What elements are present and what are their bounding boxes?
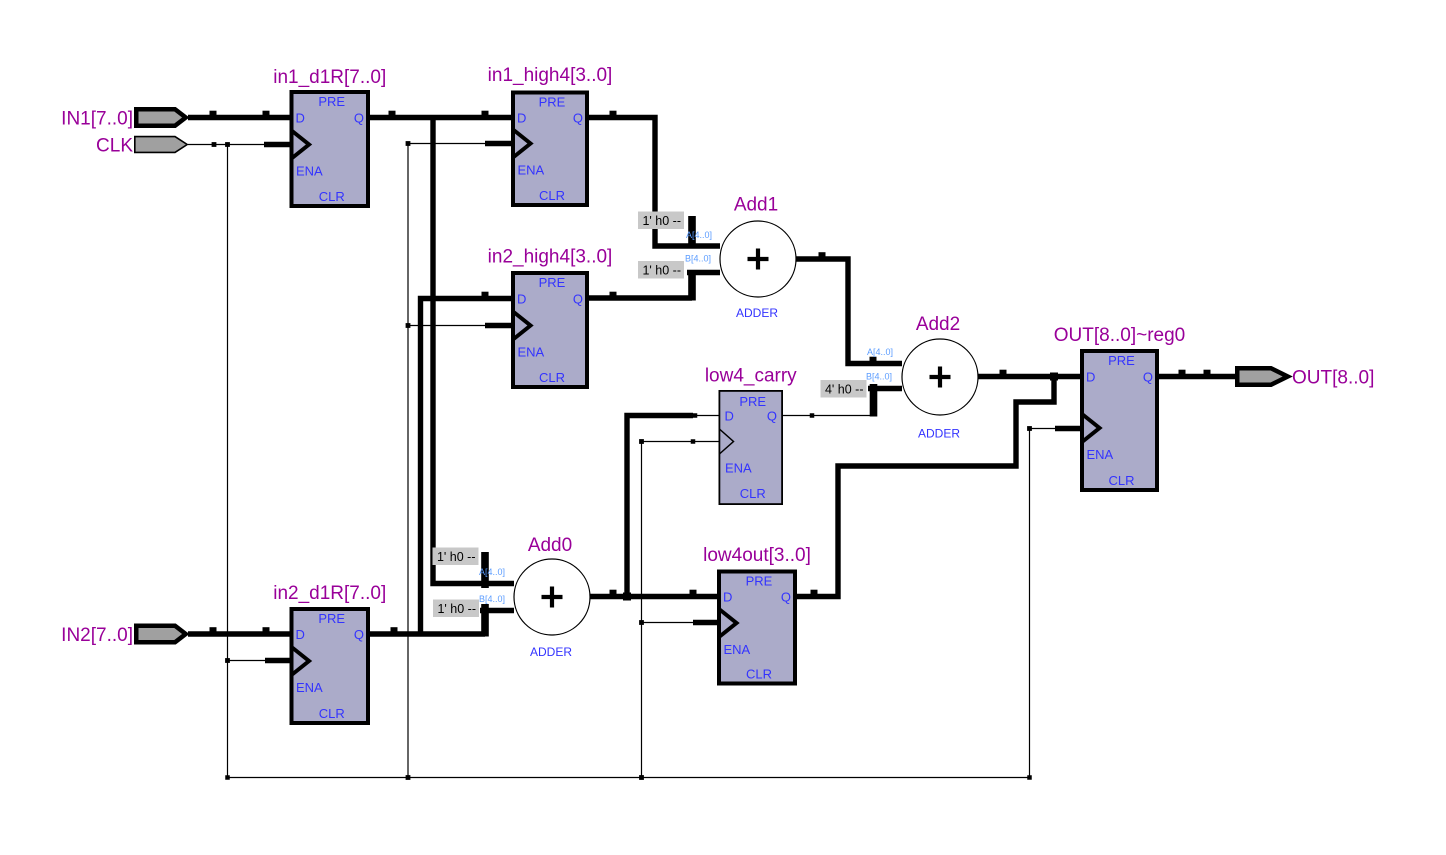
wire CLK branch in2_d1R <box>228 660 266 662</box>
svg-text:CLR: CLR <box>319 706 345 721</box>
svg-text:D: D <box>1086 370 1095 385</box>
svg-text:CLK: CLK <box>96 136 133 157</box>
svg-text:OUT[8..0]: OUT[8..0] <box>1292 368 1374 389</box>
junction low4_carry clk <box>691 439 696 444</box>
svg-text:in2_high4[3..0]: in2_high4[3..0] <box>488 247 613 268</box>
port label A4-0 <box>867 347 893 357</box>
svg-text:A[4..0]: A[4..0] <box>686 230 712 240</box>
bus tick <box>263 111 270 116</box>
wire low4_carry.Q carry wire <box>783 415 874 417</box>
junction rail right corner <box>1027 775 1032 780</box>
svg-text:ENA: ENA <box>724 642 751 657</box>
svg-text:Q: Q <box>354 111 364 126</box>
svg-text:Q: Q <box>781 590 791 605</box>
wire CLK branch in2_high4 <box>408 325 485 327</box>
svg-text:1' h0 --: 1' h0 -- <box>437 602 476 616</box>
svg-text:D: D <box>296 111 305 126</box>
wire CLK stub in2_high4 <box>485 323 511 328</box>
input pin IN2 <box>61 625 186 646</box>
wire CLK riser x407 <box>407 144 409 778</box>
svg-text:1' h0 --: 1' h0 -- <box>642 214 681 228</box>
wire IN2 bus to in2_d1R.D <box>188 631 290 636</box>
junction riser641 rail <box>639 775 644 780</box>
svg-text:ENA: ENA <box>518 345 545 360</box>
constant 1'h0 Add1.B <box>638 261 684 279</box>
wire CLK branch low4_carry <box>642 441 719 443</box>
wire CLK branch low4out <box>642 622 694 624</box>
wire Add1.B riser bar <box>688 270 696 301</box>
svg-text:D: D <box>723 590 732 605</box>
svg-text:CLR: CLR <box>539 370 565 385</box>
svg-text:Add1: Add1 <box>734 195 778 216</box>
svg-text:PRE: PRE <box>539 275 566 290</box>
wire Add1.A constant stub <box>688 216 696 247</box>
wire CLK stub OUTreg <box>1055 426 1080 431</box>
svg-text:D: D <box>725 409 734 424</box>
svg-text:PRE: PRE <box>739 394 766 409</box>
wire in2_high4.Q to Add1.B riser <box>589 273 720 299</box>
wire IN1 bus to in1_d1R.D <box>188 115 290 120</box>
bus tick <box>610 292 617 297</box>
constant 1'h0 Add0.B <box>433 600 479 618</box>
svg-text:A[4..0]: A[4..0] <box>867 347 893 357</box>
bus tick <box>870 357 877 362</box>
svg-text:PRE: PRE <box>1108 353 1135 368</box>
wire Add0.B riser bar <box>481 604 489 637</box>
input pin CLK <box>96 136 187 157</box>
svg-text:Q: Q <box>573 111 583 126</box>
junction riser641 low4out <box>639 620 644 625</box>
wire Add1 out to Add2.A <box>796 259 902 364</box>
wire CLK stub low4out <box>693 620 717 625</box>
svg-text:D: D <box>517 111 526 126</box>
wire low4_carry.D thin tap <box>693 415 719 417</box>
adder Add1 <box>720 195 796 321</box>
bus tick <box>389 111 396 116</box>
bus tick <box>610 590 617 595</box>
svg-text:in2_d1R[7..0]: in2_d1R[7..0] <box>273 583 386 604</box>
svg-text:IN1[7..0]: IN1[7..0] <box>61 109 133 130</box>
svg-text:ENA: ENA <box>296 164 323 179</box>
wire Add2.B riser bar <box>870 384 878 417</box>
svg-text:1' h0 --: 1' h0 -- <box>642 263 681 277</box>
wire CLK riser x641 <box>641 442 643 778</box>
wire Add0.A constant stub <box>481 552 489 588</box>
svg-text:ADDER: ADDER <box>918 427 960 441</box>
svg-text:Q: Q <box>354 627 364 642</box>
svg-text:CLR: CLR <box>539 188 565 203</box>
register low4_carry <box>705 366 797 505</box>
svg-text:CLR: CLR <box>319 189 345 204</box>
svg-text:ENA: ENA <box>296 680 323 695</box>
bus tick <box>482 292 489 297</box>
constant 1'h0 Add1.A <box>638 212 684 230</box>
svg-text:PRE: PRE <box>318 611 345 626</box>
junction rail left corner <box>225 775 230 780</box>
svg-text:PRE: PRE <box>746 574 773 589</box>
constant 4'h0 Add2.B <box>821 380 867 398</box>
wire CLK pin to in1_d1R clock <box>188 144 264 146</box>
wire low4out.Q merge path to OUTreg.D <box>797 377 1054 597</box>
junction carry wire <box>810 413 815 418</box>
svg-text:CLR: CLR <box>740 486 766 501</box>
junction riser407 rail <box>406 775 411 780</box>
register in1_d1R <box>273 67 386 206</box>
svg-text:in1_high4[3..0]: in1_high4[3..0] <box>488 65 613 86</box>
bus tick <box>391 627 398 632</box>
junction riser407 in2_high4 <box>406 323 411 328</box>
svg-text:low4_carry: low4_carry <box>705 366 797 387</box>
svg-text:Q: Q <box>767 409 777 424</box>
svg-text:B[4..0]: B[4..0] <box>685 254 711 264</box>
bus tick <box>1000 370 1007 375</box>
register OUT~reg0 <box>1054 325 1185 490</box>
wire CLK branch OUTreg <box>1030 428 1056 430</box>
junction CLK fanout b <box>225 142 230 147</box>
wire CLK branch in1_high4 <box>408 143 485 145</box>
adder Add0 <box>514 535 590 659</box>
svg-text:Q: Q <box>573 292 583 307</box>
port label B4-0 <box>479 594 505 604</box>
svg-text:Add2: Add2 <box>916 314 960 335</box>
junction Add0 out branch <box>623 593 631 601</box>
register in2_d1R <box>273 583 386 723</box>
svg-text:D: D <box>296 627 305 642</box>
svg-text:B[4..0]: B[4..0] <box>479 594 505 604</box>
port label A4-0 <box>479 567 505 577</box>
wire Add2.B const wire <box>868 386 902 391</box>
wire in1_d1R.Q to in1_high4.D <box>370 115 511 120</box>
svg-text:ENA: ENA <box>1087 447 1114 462</box>
svg-text:PRE: PRE <box>318 94 345 109</box>
svg-text:IN2[7..0]: IN2[7..0] <box>61 625 133 646</box>
port label A4-0 <box>686 230 712 240</box>
svg-text:OUT[8..0]~reg0: OUT[8..0]~reg0 <box>1054 325 1185 346</box>
bus tick <box>482 111 489 116</box>
bus tick <box>210 627 217 632</box>
junction CLK fanout a <box>212 142 217 147</box>
register in2_high4 <box>488 247 613 388</box>
bus tick <box>610 111 617 116</box>
svg-text:PRE: PRE <box>539 95 566 110</box>
wire in1_high4.Q to Add1.A <box>589 118 720 247</box>
bus tick <box>263 627 270 632</box>
svg-text:1' h0 --: 1' h0 -- <box>437 550 476 564</box>
bus tick <box>1179 370 1186 375</box>
bus tick <box>819 252 826 257</box>
wire Add0 out to low4out.D <box>590 594 717 599</box>
wire Add0.B riser <box>480 611 514 637</box>
wire OUTreg.Q to OUT pin <box>1159 374 1235 379</box>
bus tick <box>811 590 818 595</box>
register in1_high4 <box>488 65 613 205</box>
svg-text:ENA: ENA <box>518 163 545 178</box>
svg-text:ADDER: ADDER <box>736 306 778 320</box>
bus tick <box>210 111 217 116</box>
constant 1'h0 Add0.A <box>433 548 479 566</box>
output pin OUT <box>1237 368 1374 389</box>
svg-text:CLR: CLR <box>746 667 772 682</box>
wire in2 riser to in2_high4.D <box>421 299 512 635</box>
wire in2_d1R.Q bus <box>370 631 485 636</box>
wire CLK stub in1_d1R <box>264 142 290 147</box>
svg-text:Q: Q <box>1143 370 1153 385</box>
wire Add0 out branch to low4_carry.D <box>627 416 693 597</box>
junction low4_carry D tap <box>693 413 698 418</box>
svg-text:D: D <box>517 292 526 307</box>
svg-text:low4out[3..0]: low4out[3..0] <box>703 545 811 566</box>
svg-text:CLR: CLR <box>1108 473 1134 488</box>
junction merge at OUTreg.D <box>1050 373 1058 381</box>
junction riser407 top <box>406 141 411 146</box>
wire CLK stub in1_high4 <box>485 141 511 146</box>
svg-text:in1_d1R[7..0]: in1_d1R[7..0] <box>273 67 386 88</box>
wire CLK trunk down-across-up <box>228 145 1030 778</box>
svg-text:B[4..0]: B[4..0] <box>866 372 892 382</box>
wire Add2 out to OUTreg.D <box>978 374 1080 379</box>
junction CLK in2_d1R branch <box>225 658 230 663</box>
port label B4-0 <box>685 254 711 264</box>
adder Add2 <box>902 314 978 441</box>
svg-text:4' h0 --: 4' h0 -- <box>825 382 864 396</box>
port label B4-0 <box>866 372 892 382</box>
svg-text:A[4..0]: A[4..0] <box>479 567 505 577</box>
wire CLK stub in2_d1R <box>265 658 290 663</box>
junction riser641 top <box>639 439 644 444</box>
wire in1 bus riser to Add0.A <box>433 118 514 584</box>
svg-text:ADDER: ADDER <box>530 645 572 659</box>
bus tick <box>690 590 697 595</box>
svg-text:Add0: Add0 <box>528 535 572 556</box>
bus tick <box>1204 370 1211 375</box>
junction riser1029 top <box>1027 426 1032 431</box>
svg-text:ENA: ENA <box>725 461 752 476</box>
input pin IN1 <box>61 109 186 130</box>
register low4out <box>703 545 811 684</box>
